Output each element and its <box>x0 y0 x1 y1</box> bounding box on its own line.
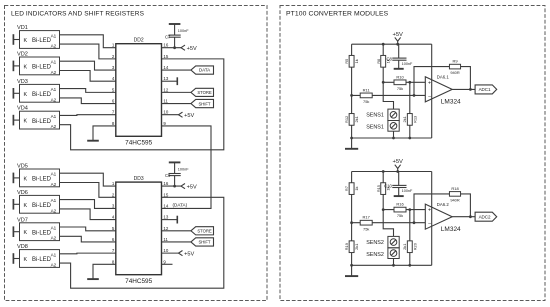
resistor R20 <box>409 210 411 266</box>
svg-text:SHIFT: SHIFT <box>199 101 211 106</box>
wire opamp supply module 2 <box>431 172 433 266</box>
svg-text:C10: C10 <box>384 184 392 189</box>
svg-text:16: 16 <box>163 181 168 186</box>
svg-text:Bi-LED: Bi-LED <box>32 92 52 98</box>
svg-text:A1: A1 <box>51 114 57 119</box>
wire pin12 to STORE tag (DD3) <box>162 230 191 232</box>
svg-text:ADC2: ADC2 <box>479 215 491 220</box>
Bi-LED VD8 <box>13 244 59 267</box>
svg-text:14: 14 <box>163 203 168 208</box>
wire pin13 stub (DD2) <box>162 80 178 82</box>
svg-text:–: – <box>428 93 431 99</box>
svg-text:DD2: DD2 <box>134 37 144 43</box>
ground below C8 <box>394 68 404 70</box>
svg-text:Bi-LED: Bi-LED <box>32 65 52 71</box>
resistor R8 <box>381 55 386 67</box>
svg-text:(DATA): (DATA) <box>173 202 188 207</box>
shift register DD2 74HC595 <box>116 37 162 146</box>
shift register DD3 74HC595 <box>116 176 162 285</box>
svg-text:+5V: +5V <box>187 184 197 190</box>
resistor R15 <box>381 183 386 195</box>
op-amp DA6.2 LM324 <box>425 202 461 233</box>
wire inverting input module 1 <box>352 94 426 96</box>
wire VD7-A1 to pin 5 <box>60 227 116 231</box>
wire DD2 pin9 to DD3 pin14 (serial data) <box>162 126 212 209</box>
svg-text:13: 13 <box>163 76 168 81</box>
svg-text:Bi-LED: Bi-LED <box>32 257 52 263</box>
capacitor C10 100nF <box>384 172 413 196</box>
svg-text:R7: R7 <box>344 186 349 191</box>
wire VD5-A1 to pin 1 <box>60 173 116 186</box>
wire VD8-A2 to pin 15 <box>60 197 224 288</box>
resistor R16 <box>394 207 406 212</box>
svg-text:A2: A2 <box>51 208 57 213</box>
wire VD3-A1 to pin 5 <box>60 89 116 93</box>
resistor R19 <box>349 241 354 253</box>
resistor R9 <box>449 64 460 69</box>
svg-text:R15: R15 <box>376 185 381 192</box>
svg-text:+5V: +5V <box>392 32 403 38</box>
wire VD2-A1 to pin 3 <box>60 61 116 70</box>
resistor R18 <box>449 192 460 197</box>
wire VD6-A1 to pin 3 <box>60 200 116 209</box>
svg-text:SENS1: SENS1 <box>366 125 384 131</box>
pin13 terminator bar (DD3) <box>176 216 178 224</box>
svg-text:+: + <box>428 80 431 86</box>
svg-text:11: 11 <box>163 237 168 242</box>
svg-text:K: K <box>24 257 28 263</box>
svg-text:1k: 1k <box>354 186 359 190</box>
svg-text:12: 12 <box>163 226 168 231</box>
svg-text:SENS1: SENS1 <box>366 113 384 119</box>
wire inverting input module 2 <box>352 222 426 224</box>
svg-text:DA6.1: DA6.1 <box>437 75 450 80</box>
svg-text:A1: A1 <box>51 252 57 257</box>
svg-text:SENS2: SENS2 <box>366 240 384 246</box>
svg-text:C9: C9 <box>165 173 171 178</box>
svg-text:A1: A1 <box>51 33 57 38</box>
svg-text:C8: C8 <box>386 56 392 61</box>
ground module 1 <box>345 148 358 150</box>
wire left branch module 2 <box>351 172 353 266</box>
wire ground drop module 1 <box>351 138 353 148</box>
svg-text:75k: 75k <box>363 99 369 104</box>
wire DD3 pin8 to ground <box>93 264 116 278</box>
net tag ADC1 <box>475 85 497 94</box>
svg-text:R11: R11 <box>363 87 371 92</box>
wire VD1-A2 to pin 2 <box>60 44 116 59</box>
op-amp DA6.1 LM324 <box>425 75 461 106</box>
svg-text:R20: R20 <box>412 242 417 250</box>
wire output module 1 <box>452 88 475 90</box>
wire VD1-A1 to pin 1 <box>60 35 116 48</box>
svg-text:A1: A1 <box>51 60 57 65</box>
wire pin10 to +5V (DD3) <box>162 252 179 254</box>
svg-text:R17: R17 <box>363 215 371 220</box>
svg-text:14: 14 <box>163 65 168 70</box>
svg-text:STORE: STORE <box>197 90 211 95</box>
Bi-LED VD2 <box>13 52 59 75</box>
resistor R10 <box>394 80 406 85</box>
resistor R11 <box>360 93 372 98</box>
wire VD7-A2 to pin 6 <box>60 236 116 242</box>
svg-text:A1: A1 <box>51 226 57 231</box>
Bi-LED VD3 <box>13 79 59 102</box>
svg-text:K: K <box>24 203 28 209</box>
svg-text:A1: A1 <box>51 198 57 203</box>
svg-text:100nF: 100nF <box>178 168 189 172</box>
svg-text:75k: 75k <box>397 213 403 218</box>
DD2 pin numbers <box>112 43 169 126</box>
svg-text:A1: A1 <box>51 172 57 177</box>
resistor R13 <box>409 82 411 138</box>
svg-text:ADC1: ADC1 <box>479 87 491 92</box>
ground bar above C7 <box>169 23 181 25</box>
svg-text:75k: 75k <box>363 226 369 231</box>
wire VD4-A2 to pin 15 <box>60 59 224 150</box>
svg-text:+5V: +5V <box>187 46 197 52</box>
svg-text:SHIFT: SHIFT <box>199 240 211 245</box>
svg-text:Bi-LED: Bi-LED <box>32 38 52 44</box>
node bridge left tap module 2 <box>350 221 353 224</box>
ground below DD3 <box>87 278 99 280</box>
svg-text:LM324: LM324 <box>441 226 461 233</box>
svg-text:100nF: 100nF <box>402 189 413 193</box>
wire pin13 stub (DD3) <box>162 219 178 221</box>
net tag SHIFT (DD2) <box>191 99 214 107</box>
ground bar above C9 <box>169 161 181 163</box>
wire VD6-A2 to pin 4 <box>60 209 116 220</box>
resistor R12 <box>349 114 354 126</box>
+5V supply module 1 <box>395 37 401 41</box>
svg-text:R8: R8 <box>376 59 381 64</box>
svg-text:PT100 CONVERTER MODULES: PT100 CONVERTER MODULES <box>286 10 389 17</box>
svg-text:R19: R19 <box>344 243 349 250</box>
svg-text:R5: R5 <box>344 59 349 64</box>
wire VD8-A1 to pin 7 <box>60 252 116 255</box>
svg-text:K: K <box>24 92 28 98</box>
DD3 pin numbers <box>112 181 169 264</box>
svg-text:K: K <box>24 38 28 44</box>
svg-text:74HC595: 74HC595 <box>125 140 152 147</box>
svg-text:R16: R16 <box>396 202 404 207</box>
net tag STORE (DD3) <box>191 227 214 235</box>
svg-text:+5V: +5V <box>392 159 403 165</box>
sensor terminal SENS1 <box>366 109 399 131</box>
wire bottom rail module 2 <box>352 264 432 266</box>
svg-text:R12: R12 <box>344 116 349 123</box>
svg-text:DD3: DD3 <box>134 176 144 182</box>
wire middle branch module 1 <box>383 44 393 109</box>
pin13 terminator bar (DD2) <box>176 77 178 85</box>
net tag DATA <box>191 66 214 74</box>
svg-text:10: 10 <box>163 110 168 115</box>
capacitor C8 100nF <box>386 44 413 68</box>
wire pin14 to DATA tag <box>162 69 191 71</box>
svg-text:A2: A2 <box>51 44 57 49</box>
wire pin11 to SHIFT tag (DD2) <box>162 103 191 105</box>
svg-text:A2: A2 <box>51 236 57 241</box>
wire +5V rail module 1 <box>352 43 432 45</box>
net tag STORE (DD2) <box>191 88 214 96</box>
wire feedback module 1 <box>414 67 450 96</box>
svg-text:SENS2: SENS2 <box>366 252 384 258</box>
wire VD4-A1 to pin 7 <box>60 114 116 117</box>
svg-text:Bi-LED: Bi-LED <box>32 203 52 209</box>
Bi-LED VD7 <box>13 217 59 240</box>
svg-text:100nF: 100nF <box>402 62 413 66</box>
ground below DD2 <box>87 140 99 142</box>
svg-text:Bi-LED: Bi-LED <box>32 230 52 236</box>
wire opamp supply module 1 <box>431 44 433 138</box>
wire ground drop module 2 <box>351 265 353 275</box>
svg-text:Bi-LED: Bi-LED <box>32 177 52 183</box>
Bi-LED VD1 <box>13 25 59 48</box>
wire VD2-A2 to pin 4 <box>60 71 116 82</box>
sensor terminal SENS2 <box>366 236 399 258</box>
wire pin12 to STORE tag (DD2) <box>162 91 191 93</box>
svg-text:16: 16 <box>163 43 168 48</box>
capacitor C7 100nF <box>165 25 189 48</box>
svg-text:DATA: DATA <box>199 68 211 73</box>
svg-text:15: 15 <box>163 54 168 59</box>
svg-text:13: 13 <box>163 215 168 220</box>
wire non-inverting input module 1 <box>383 81 425 83</box>
svg-text:K: K <box>24 176 28 182</box>
node bridge left tap module 1 <box>350 94 353 97</box>
svg-text:10: 10 <box>163 248 168 253</box>
svg-text:2k1: 2k1 <box>354 244 359 250</box>
wire feedback module 2 <box>414 194 450 223</box>
svg-text:11: 11 <box>163 99 168 104</box>
left panel dashed frame <box>5 6 268 301</box>
wire DD3 pin9 stub <box>162 263 173 265</box>
svg-text:A2: A2 <box>51 97 57 102</box>
svg-text:100nF: 100nF <box>178 29 189 33</box>
+5V symbol at pin10 (DD3) <box>179 251 183 256</box>
right panel dashed frame <box>280 6 545 301</box>
svg-text:R13: R13 <box>412 116 417 123</box>
ground below C10 <box>394 195 404 197</box>
svg-text:–: – <box>428 221 431 227</box>
wire pin10 to +5V (DD2) <box>162 114 179 116</box>
svg-text:STORE: STORE <box>197 228 211 233</box>
net tag SHIFT (DD3) <box>191 238 214 246</box>
net tag ADC2 <box>475 212 497 221</box>
svg-text:2k1: 2k1 <box>354 116 359 122</box>
svg-text:A2: A2 <box>51 124 57 129</box>
+5V symbol at pin16 (DD3) <box>181 184 185 189</box>
svg-text:2k1: 2k1 <box>402 116 407 122</box>
svg-text:75k: 75k <box>397 86 403 91</box>
Bi-LED VD5 <box>13 164 59 187</box>
resistor R7 <box>349 183 354 195</box>
wire pin16 to +5V (DD3) <box>162 185 182 187</box>
svg-text:2k1: 2k1 <box>402 244 407 250</box>
svg-text:R10: R10 <box>396 74 404 79</box>
svg-text:A2: A2 <box>51 182 57 187</box>
wire VD3-A2 to pin 6 <box>60 98 116 104</box>
wire +5V rail module 2 <box>352 171 432 173</box>
svg-text:K: K <box>24 64 28 70</box>
capacitor C9 100nF <box>165 163 189 186</box>
wire bottom rail module 1 <box>352 137 432 139</box>
wire VD5-A2 to pin 2 <box>60 183 116 198</box>
svg-text:R18: R18 <box>451 186 459 191</box>
+5V symbol at pin16 (DD2) <box>181 45 185 50</box>
wire pin16 to +5V (DD2) <box>162 47 182 49</box>
svg-text:A2: A2 <box>51 70 57 75</box>
svg-text:940R: 940R <box>450 70 459 75</box>
svg-text:LED INDICATORS AND SHIFT REGIS: LED INDICATORS AND SHIFT REGISTERS <box>11 10 145 17</box>
svg-text:K: K <box>24 230 28 236</box>
svg-text:15: 15 <box>163 192 168 197</box>
resistor R17 <box>360 220 372 225</box>
svg-text:940R: 940R <box>450 198 459 203</box>
+5V symbol at pin10 (DD2) <box>179 112 183 117</box>
svg-text:1k: 1k <box>354 59 359 63</box>
wire DD2 pin8 to ground <box>93 126 116 140</box>
resistor R5 <box>349 55 354 67</box>
svg-text:R9: R9 <box>452 59 458 64</box>
wire pin11 to SHIFT tag (DD3) <box>162 241 191 243</box>
svg-text:+: + <box>428 208 431 214</box>
svg-text:LM324: LM324 <box>441 99 461 106</box>
svg-text:A2: A2 <box>51 263 57 268</box>
svg-text:+5V: +5V <box>184 251 194 257</box>
Bi-LED VD6 <box>13 190 59 213</box>
svg-text:12: 12 <box>163 87 168 92</box>
wire middle branch module 2 <box>383 172 393 237</box>
wire non-inverting input module 2 <box>383 209 425 211</box>
svg-text:Bi-LED: Bi-LED <box>32 119 52 125</box>
svg-text:+5V: +5V <box>184 113 194 119</box>
wire sensor to ground rail module 1 <box>393 131 395 138</box>
svg-text:C7: C7 <box>165 35 171 40</box>
svg-text:DA6.2: DA6.2 <box>437 202 450 207</box>
wire output module 2 <box>452 216 475 218</box>
wire sensor to ground rail module 2 <box>393 259 395 266</box>
ground module 2 <box>345 275 358 277</box>
svg-text:74HC595: 74HC595 <box>125 278 152 285</box>
Bi-LED VD4 <box>13 106 59 129</box>
+5V supply module 2 <box>395 165 401 169</box>
svg-text:A1: A1 <box>51 87 57 92</box>
wire left branch module 1 <box>351 44 353 138</box>
svg-text:K: K <box>24 119 28 125</box>
